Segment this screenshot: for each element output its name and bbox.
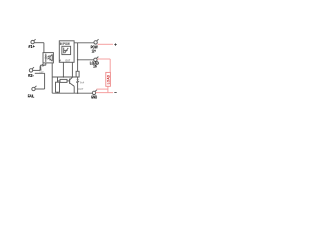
svg-text:IN POW: IN POW bbox=[60, 42, 70, 46]
svg-text:#1+: #1+ bbox=[28, 44, 35, 49]
svg-text:6v4: 6v4 bbox=[80, 81, 85, 85]
svg-text:LOAD: LOAD bbox=[106, 74, 110, 84]
svg-text:16: 16 bbox=[93, 64, 97, 69]
svg-text:A: A bbox=[59, 59, 61, 63]
svg-text:GND: GND bbox=[91, 94, 97, 99]
svg-text:12+: 12+ bbox=[92, 49, 96, 54]
svg-text:OUT: OUT bbox=[65, 59, 70, 63]
svg-text:FAIL: FAIL bbox=[28, 93, 35, 98]
svg-text:12v: 12v bbox=[39, 70, 44, 74]
svg-text:OUT: OUT bbox=[78, 87, 84, 91]
svg-text:#2-: #2- bbox=[28, 73, 34, 78]
